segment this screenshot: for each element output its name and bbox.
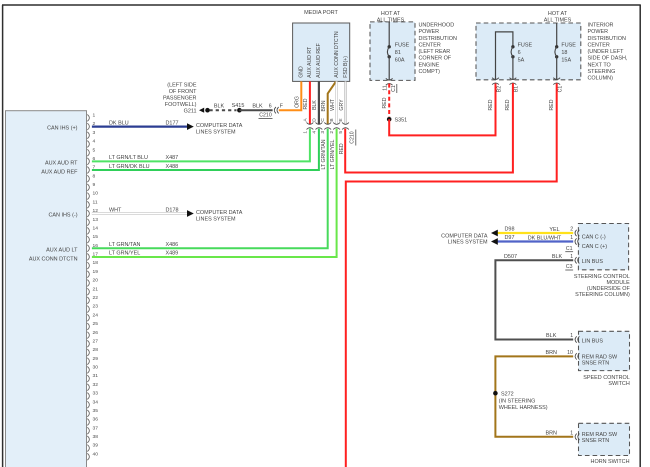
wire label: BLK (G211 side) — [214, 103, 225, 109]
svg-text:13: 13 — [93, 217, 99, 223]
wire label: RED (B1) — [505, 99, 511, 110]
wire label: X488 — [166, 164, 179, 170]
svg-text:15A: 15A — [561, 58, 571, 64]
pin 1 of radio connector — [87, 113, 95, 122]
svg-text:4: 4 — [311, 131, 317, 134]
svg-text:PASSENGER: PASSENGER — [163, 96, 197, 102]
svg-text:INTERIOR: INTERIOR — [588, 23, 614, 29]
pin 19 of radio connector — [87, 269, 98, 278]
svg-text:G211: G211 — [184, 109, 197, 115]
connector pin 1 (SCM LIN BUS) — [570, 254, 579, 264]
wire label: D177 — [166, 120, 179, 126]
svg-text:33: 33 — [93, 391, 99, 397]
pin 8 of radio connector — [87, 173, 95, 182]
svg-text:GND: GND — [299, 66, 305, 78]
svg-text:COMPUTER DATA: COMPUTER DATA — [196, 210, 243, 216]
svg-text:D97: D97 — [505, 235, 515, 241]
node label: AUX AUD REF pin 7 — [41, 170, 78, 176]
svg-text:22: 22 — [93, 295, 99, 301]
svg-text:38: 38 — [93, 434, 99, 440]
svg-text:60A: 60A — [395, 58, 405, 64]
svg-text:(LEFT REAR: (LEFT REAR — [419, 49, 451, 55]
node label: INTERIOR POWER DISTRIBUTION CENTER (UNDER LEFT SIDE OF DASH, NEXT TO STEERING COLUMN) — [588, 23, 628, 82]
svg-text:CORNER OF: CORNER OF — [419, 56, 452, 62]
svg-text:POWER: POWER — [419, 29, 440, 35]
svg-text:35: 35 — [93, 408, 99, 414]
pin 37 of radio connector — [87, 425, 98, 434]
svg-text:DISTRIBUTION: DISTRIBUTION — [419, 36, 457, 42]
wire label: BRN (pin 10) — [545, 350, 557, 356]
wire: D177 DK BLU from radio pin 2 to computer data lines system — [92, 125, 188, 127]
component: interior power distribution center box — [476, 23, 581, 80]
wire: GRY from media port FSD B(+) down to C210 pin E — [344, 81, 346, 124]
svg-text:27: 27 — [93, 338, 99, 344]
svg-text:C3: C3 — [566, 264, 573, 270]
svg-text:HOT AT: HOT AT — [381, 11, 401, 17]
wire: D98 YEL from SCM CAN C(-) to computer data lines system — [498, 232, 574, 234]
wire label: BLK — [312, 100, 318, 110]
pin 23 of radio connector — [87, 304, 98, 313]
svg-text:BLK: BLK — [552, 254, 563, 260]
svg-text:X489: X489 — [166, 251, 179, 257]
wire: page frame top border — [2, 4, 641, 6]
svg-text:D178: D178 — [166, 207, 179, 213]
svg-text:3: 3 — [93, 130, 96, 136]
connector C210 pin A/1 — [302, 118, 313, 134]
svg-text:6: 6 — [269, 103, 272, 109]
node label: COMPUTER DATA LINES SYSTEM (D178) — [196, 210, 243, 223]
svg-text:D98: D98 — [505, 227, 515, 233]
svg-text:RED: RED — [505, 99, 511, 110]
node label: HOT AT ALL TIMES (interior) — [544, 11, 572, 24]
svg-text:WHT: WHT — [330, 98, 336, 111]
connector label: C210 (at ground splice) — [259, 112, 273, 118]
svg-text:20: 20 — [93, 278, 99, 284]
pin 28 of radio connector — [87, 347, 98, 356]
svg-text:11: 11 — [383, 85, 389, 90]
wire: D507 BLK from SCM LIN BUS down to speed control switch — [495, 260, 573, 339]
connector pin B1 (interior PDC exit) — [510, 78, 520, 92]
component: steering control module box — [578, 224, 628, 270]
svg-text:DISTRIBUTION: DISTRIBUTION — [588, 36, 626, 42]
svg-text:CAN C (-): CAN C (-) — [582, 235, 606, 241]
svg-text:S272: S272 — [501, 391, 514, 397]
wire label: X486 — [166, 242, 179, 248]
svg-text:B1: B1 — [514, 86, 520, 92]
svg-text:5A: 5A — [518, 58, 525, 64]
wire: RED dashed from underhood pin 11 to splice S351 — [388, 84, 390, 117]
wire: RED from interior PDC pin C1 down to page bottom — [346, 83, 557, 467]
svg-text:31: 31 — [93, 373, 99, 379]
wire label: ORG — [295, 96, 301, 108]
node: arrow to computer data lines system (D98) — [491, 230, 498, 237]
svg-text:FSD B(+): FSD B(+) — [343, 56, 349, 78]
wire label: RED (C1) — [549, 99, 555, 110]
svg-text:15: 15 — [93, 234, 99, 240]
svg-text:37: 37 — [93, 425, 99, 431]
svg-text:WHEEL HARNESS): WHEEL HARNESS) — [499, 405, 548, 411]
svg-text:C: C — [320, 118, 326, 122]
wire label: D97 — [505, 235, 515, 241]
wire label: YEL — [549, 227, 559, 233]
svg-text:COLUMN): COLUMN) — [588, 76, 614, 82]
svg-text:11: 11 — [93, 199, 98, 205]
node: arrow to computer data lines system (D178) — [187, 210, 194, 217]
wire: page frame right border — [639, 5, 641, 467]
svg-text:LINES SYSTEM: LINES SYSTEM — [196, 130, 236, 136]
node label: CAN IHS (-) pin 12 — [49, 212, 78, 218]
svg-text:5: 5 — [338, 131, 344, 134]
svg-text:CENTER: CENTER — [588, 42, 610, 48]
node label: LIN BUS (SCM) — [582, 259, 604, 265]
svg-text:BLK: BLK — [312, 100, 318, 110]
wire label: RED (below C210 pin 5) — [339, 143, 345, 154]
svg-text:HORN SWITCH: HORN SWITCH — [591, 459, 630, 465]
svg-text:F: F — [280, 103, 283, 109]
node label: LIN BUS (speed control switch) — [582, 338, 604, 344]
svg-text:RED: RED — [549, 99, 555, 110]
connector pin 10 (speed control switch) — [567, 350, 579, 360]
svg-text:X486: X486 — [166, 242, 179, 248]
svg-text:AUX CONN DTCTN: AUX CONN DTCTN — [29, 257, 78, 263]
svg-text:LT GRN/DK BLU: LT GRN/DK BLU — [109, 164, 150, 170]
pin 32 of radio connector — [87, 382, 98, 391]
wire: fuse 6 top loop to pin B2 — [496, 32, 513, 80]
wire label: LT GRN/TAN — [109, 242, 140, 248]
node label: AUX AUD LT pin 16 — [46, 247, 78, 253]
svg-text:4: 4 — [93, 139, 96, 145]
connector pin C1 (interior PDC exit) — [553, 78, 563, 93]
svg-text:AUX AUD LT: AUX AUD LT — [46, 247, 78, 253]
svg-text:26: 26 — [93, 330, 99, 336]
node label: (IN STEERING WHEEL HARNESS) — [499, 398, 548, 411]
svg-text:ENGINE: ENGINE — [419, 62, 440, 68]
svg-text:21: 21 — [93, 286, 99, 292]
svg-text:STEERING: STEERING — [588, 69, 616, 75]
pin 6 of radio connector — [87, 156, 95, 165]
svg-text:AUX AUD RT: AUX AUD RT — [307, 46, 313, 78]
pin 5 of radio connector — [87, 147, 95, 156]
node label: CAN IHS (+) pin 2 — [47, 126, 78, 132]
svg-text:LT GRN/TAN: LT GRN/TAN — [109, 242, 140, 248]
wire: RED from S351 to interior PDC pin B2 — [389, 83, 495, 135]
svg-text:C210: C210 — [259, 112, 272, 118]
wire: fuse 18 to pin C1 exit — [556, 57, 558, 80]
wire label: BRN — [321, 100, 327, 111]
pin 14 of radio connector — [87, 225, 98, 234]
node label: (LEFT SIDE OF FRONT PASSENGER FOOTWELL) — [163, 83, 197, 109]
svg-text:C1: C1 — [566, 246, 573, 252]
svg-text:FUSE: FUSE — [518, 43, 533, 49]
svg-text:LT GRN/YEL: LT GRN/YEL — [330, 139, 336, 169]
component: underhood power distribution center box — [370, 22, 415, 81]
svg-text:RED: RED — [488, 99, 494, 110]
node label: SPEED CONTROL SWITCH — [583, 375, 630, 387]
svg-text:FOOTWELL): FOOTWELL) — [165, 102, 197, 108]
svg-text:10: 10 — [567, 350, 573, 356]
svg-text:SNSE RTN: SNSE RTN — [582, 438, 609, 444]
fuse 81 60A — [387, 43, 409, 64]
wire: D97 DK BLU/WHT from SCM CAN C(+) to computer data lines system — [498, 240, 574, 242]
connector C210 pin D/4 — [311, 118, 322, 134]
pin 35 of radio connector — [87, 408, 98, 417]
connector C210 pin 6/F — [269, 103, 283, 113]
svg-text:10: 10 — [93, 191, 99, 197]
svg-text:S351: S351 — [395, 118, 408, 124]
wire: WHT from media port down to C210 pin B — [335, 81, 337, 124]
svg-text:D507: D507 — [504, 254, 517, 260]
svg-text:B2: B2 — [496, 86, 502, 92]
svg-text:28: 28 — [93, 347, 99, 353]
svg-text:S415: S415 — [232, 103, 245, 109]
svg-text:1: 1 — [302, 131, 308, 134]
svg-text:8: 8 — [93, 173, 96, 179]
connector pin 1 (horn switch) — [570, 431, 579, 441]
svg-text:(IN STEERING: (IN STEERING — [499, 398, 536, 404]
component: MEDIA PORT box — [293, 10, 350, 81]
wire label: RED (underhood feed) — [382, 97, 388, 108]
svg-text:40: 40 — [93, 451, 99, 457]
svg-text:34: 34 — [93, 399, 99, 405]
node: arrow to computer data lines system (D177) — [187, 123, 194, 130]
svg-text:3: 3 — [320, 131, 326, 134]
pin label: AUX AUD RT (media port) — [307, 46, 313, 78]
pin 30 of radio connector — [87, 365, 98, 374]
pin 27 of radio connector — [87, 338, 98, 347]
svg-text:C210: C210 — [349, 131, 355, 144]
svg-text:CAN IHS (-): CAN IHS (-) — [49, 212, 78, 218]
svg-text:BLK: BLK — [252, 103, 263, 109]
svg-text:24: 24 — [93, 312, 99, 318]
node: arrow to computer data lines system (D97) — [491, 238, 498, 245]
pin 10 of radio connector — [87, 191, 98, 200]
svg-text:DK BLU/WHT: DK BLU/WHT — [528, 235, 562, 241]
pin 9 of radio connector — [87, 182, 95, 191]
svg-text:B: B — [329, 118, 335, 121]
svg-text:FUSE: FUSE — [395, 43, 410, 49]
svg-text:WHT: WHT — [109, 207, 122, 213]
wire: D178 WHT from radio pin 12 to computer data lines system — [92, 212, 188, 214]
connector pin B2 (interior PDC exit) — [492, 78, 502, 92]
svg-text:BRN: BRN — [545, 431, 557, 437]
connector label: C3 (SCM) — [565, 264, 573, 270]
component: speed control switch box — [579, 331, 630, 370]
wire label: BLK (C210 side) — [252, 103, 263, 109]
pin label: FSD B(+) (media port) — [343, 56, 349, 78]
connector C210 pin E/5 — [338, 118, 349, 134]
wire: RED from interior PDC pin B1 to C210 pin 5 — [345, 83, 513, 172]
pin 40 of radio connector — [87, 451, 98, 460]
svg-text:LT GRN/YEL: LT GRN/YEL — [109, 251, 140, 257]
svg-text:RED: RED — [382, 97, 388, 108]
svg-text:YEL: YEL — [549, 227, 559, 233]
wire label: BLK (to speed control switch) — [546, 333, 557, 339]
svg-text:X488: X488 — [166, 164, 179, 170]
node label: COMPUTER DATA LINES SYSTEM (D177) — [196, 123, 243, 136]
wire: BRN from media port AUX CONN DTCTN jog down to C210 pin C — [328, 81, 336, 124]
pin label: AUX CONN DTCTN (media port) — [334, 31, 340, 78]
wire label: DK BLU/WHT — [528, 235, 562, 241]
wire: RED from media port AUX AUD RT down to C210 pin A — [309, 81, 311, 124]
wire: X486 LT GRN/TAN from radio pin 16 to C210 pin 3 — [92, 129, 328, 249]
splice S272 — [493, 391, 514, 397]
wire: fuse 81 to pin 11 exit — [388, 57, 390, 81]
svg-text:SIDE OF DASH,: SIDE OF DASH, — [588, 56, 628, 62]
node label: CAN C (+) — [582, 244, 607, 250]
wire: BLK from S415 to C210 pin 6 — [239, 109, 272, 111]
wire label: RED (B2) — [488, 99, 494, 110]
svg-text:36: 36 — [93, 417, 99, 423]
node label: AUX AUD RT pin 6 — [45, 161, 78, 167]
connector label: C1 (SCM) — [565, 246, 573, 252]
pin 33 of radio connector — [87, 391, 98, 400]
svg-text:LINES SYSTEM: LINES SYSTEM — [196, 217, 236, 223]
svg-text:D: D — [311, 118, 317, 122]
svg-text:14: 14 — [93, 225, 99, 231]
svg-text:25: 25 — [93, 321, 99, 327]
pin 38 of radio connector — [87, 434, 98, 443]
splice S415 — [232, 103, 245, 113]
pin 25 of radio connector — [87, 321, 98, 330]
svg-text:HOT AT: HOT AT — [548, 11, 568, 17]
svg-text:LIN BUS: LIN BUS — [582, 259, 604, 265]
svg-text:SNSE RTN: SNSE RTN — [582, 360, 609, 366]
node label: REM RAD SW SNSE RTN (horn switch) — [582, 432, 618, 444]
node label: HORN SWITCH — [591, 459, 630, 465]
svg-text:OF FRONT: OF FRONT — [169, 89, 197, 95]
node label: HOT AT ALL TIMES (underhood) — [377, 11, 405, 24]
wire label: LT GRN/TAN (vertical) — [321, 139, 327, 169]
svg-text:POWER: POWER — [588, 29, 609, 35]
node label: COMPUTER DATA LINES SYSTEM (steering) — [441, 234, 488, 246]
svg-text:LT GRN/LT BLU: LT GRN/LT BLU — [109, 155, 148, 161]
wire: BRN from speed control switch pin 10 down to S272 and horn switch — [495, 356, 573, 436]
connector pin 2 (SCM CAN C(-)) — [570, 227, 579, 237]
wire: BLK dashed from G211 to splice S415 — [210, 109, 237, 111]
svg-text:DK BLU: DK BLU — [109, 120, 129, 126]
svg-text:19: 19 — [93, 269, 99, 275]
connector pin 11 / C1 (underhood exit) — [383, 78, 397, 93]
wire: X489 LT GRN/YEL from radio pin 17 to C210 pin 2 — [92, 129, 337, 257]
pin 15 of radio connector — [87, 234, 98, 243]
svg-text:GRY: GRY — [339, 99, 345, 111]
wire: BLK from media port AUX AUD REF down to C210 pin D — [318, 81, 320, 124]
wire label: X489 — [166, 251, 179, 257]
svg-text:BLK: BLK — [546, 333, 557, 339]
svg-text:LT GRN/TAN: LT GRN/TAN — [321, 139, 327, 169]
wire label: X487 — [166, 155, 179, 161]
splice S351 — [387, 117, 407, 124]
wire: feed into fuse 18 — [556, 23, 558, 47]
svg-text:RED: RED — [339, 143, 345, 154]
pin label: AUX AUD REF (media port) — [316, 43, 322, 78]
wire label: GRY — [339, 99, 345, 111]
svg-text:2: 2 — [570, 227, 573, 233]
svg-text:RED: RED — [303, 98, 309, 109]
pin 18 of radio connector — [87, 260, 98, 269]
pin 12 of radio connector — [87, 208, 98, 217]
wire label: DK BLU — [109, 120, 129, 126]
node label: UNDERHOOD POWER DISTRIBUTION CENTER (LEFT REAR CORNER OF ENGINE COMPT) — [419, 23, 457, 75]
pin 22 of radio connector — [87, 295, 98, 304]
connector C210 pin B/2 — [329, 118, 340, 133]
svg-text:6: 6 — [518, 50, 521, 56]
svg-text:NEXT TO: NEXT TO — [588, 62, 611, 68]
svg-text:18: 18 — [93, 260, 99, 266]
svg-text:5: 5 — [93, 147, 96, 153]
wire label: LT GRN/YEL — [109, 251, 140, 257]
wire: X488 LT GRN/DK BLU from radio pin 7 to C210 pin 4 — [92, 129, 319, 170]
svg-text:AUX AUD REF: AUX AUD REF — [316, 43, 322, 78]
svg-text:1: 1 — [570, 333, 573, 339]
svg-text:CAN C (+): CAN C (+) — [582, 244, 607, 250]
svg-text:STEERING COLUMN): STEERING COLUMN) — [575, 292, 630, 298]
pin 11 of radio connector — [87, 199, 98, 208]
svg-text:C1: C1 — [391, 85, 397, 92]
wire label: BLK (D507) — [552, 254, 563, 260]
pin 3 of radio connector — [87, 130, 95, 139]
pin 16 of radio connector — [87, 243, 98, 252]
svg-text:9: 9 — [93, 182, 96, 188]
wire label: WHT — [109, 207, 122, 213]
svg-text:C1: C1 — [558, 86, 564, 93]
pin 21 of radio connector — [87, 286, 98, 295]
node label: AUX CONN DTCTN pin 17 — [29, 257, 78, 263]
pin 39 of radio connector — [87, 443, 98, 452]
wire: page frame left border — [2, 5, 4, 467]
connector label: C210 (vertical) — [349, 130, 355, 146]
svg-text:1: 1 — [570, 431, 573, 437]
node label: CAN C (-) — [582, 235, 606, 241]
pin 31 of radio connector — [87, 373, 98, 382]
svg-text:32: 32 — [93, 382, 99, 388]
svg-text:FUSE: FUSE — [561, 43, 576, 49]
node label: STEERING CONTROL MODULE (UNDERSIDE OF STEERING COLUMN) — [574, 274, 631, 298]
svg-text:(UNDER LEFT: (UNDER LEFT — [588, 49, 625, 55]
svg-text:29: 29 — [93, 356, 99, 362]
wire: feed into fuse 81 — [388, 22, 390, 47]
pin 7 of radio connector — [87, 165, 95, 174]
svg-text:39: 39 — [93, 443, 99, 449]
pin 24 of radio connector — [87, 312, 98, 321]
svg-text:BRN: BRN — [321, 100, 327, 111]
svg-text:2: 2 — [329, 131, 335, 134]
pin 20 of radio connector — [87, 278, 98, 287]
connector pin 1 (speed control switch LIN BUS) — [570, 333, 579, 343]
wire: fuse 6 to pin B1 exit — [512, 57, 514, 80]
pin 29 of radio connector — [87, 356, 98, 365]
ground G211 — [184, 108, 210, 115]
svg-text:23: 23 — [93, 304, 99, 310]
connector: radio 40-pin connector block — [6, 111, 87, 467]
svg-text:COMPUTER DATA: COMPUTER DATA — [196, 123, 243, 129]
svg-text:MEDIA PORT: MEDIA PORT — [304, 10, 338, 16]
svg-text:1: 1 — [93, 113, 96, 119]
wire: X487 LT GRN/LT BLU from radio pin 6 to C210 pin 1 — [92, 129, 310, 162]
wire: ORG from media port GND down and left to C210 pin F — [279, 81, 302, 110]
svg-text:30: 30 — [93, 365, 99, 371]
wire label: RED — [303, 98, 309, 109]
svg-text:LINES SYSTEM: LINES SYSTEM — [448, 239, 488, 245]
svg-text:ORG: ORG — [295, 96, 301, 108]
wire label: D98 — [505, 227, 515, 233]
svg-text:1: 1 — [570, 254, 573, 260]
wire label: LT GRN/DK BLU — [109, 164, 150, 170]
pin 17 of radio connector — [87, 252, 98, 261]
svg-text:BRN: BRN — [545, 350, 557, 356]
svg-text:81: 81 — [395, 50, 401, 56]
node label: REM RAD SW SNSE RTN (speed control switch) — [582, 354, 618, 366]
